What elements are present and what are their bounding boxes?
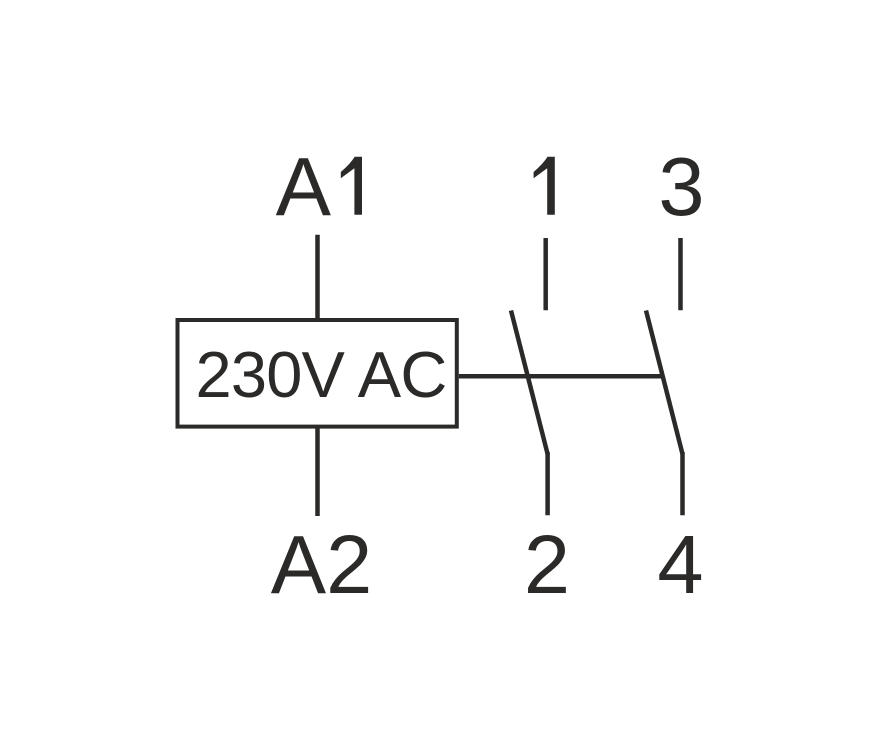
svg-text:A2: A2: [271, 518, 373, 611]
svg-text:4: 4: [657, 518, 703, 611]
svg-text:A: A: [276, 140, 332, 233]
svg-text:3: 3: [658, 140, 704, 233]
svg-text:230V AC: 230V AC: [196, 338, 447, 411]
svg-text:2: 2: [524, 518, 570, 611]
